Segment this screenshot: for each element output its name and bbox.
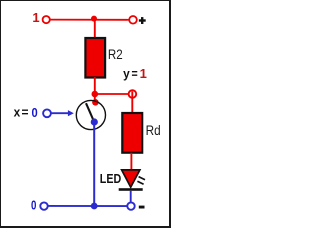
label - (139, 206, 145, 209)
junction node y (92, 91, 99, 98)
label R2 (108, 47, 123, 62)
label 0 (31, 198, 36, 213)
svg-text:Rd: Rd (146, 123, 161, 138)
node y terminal (129, 90, 137, 98)
wire LED cathode (130, 191, 132, 206)
svg-text:R2: R2 (108, 47, 123, 62)
svg-text:=: = (22, 105, 29, 120)
wire Rd top (131, 91, 133, 114)
svg-text:1: 1 (140, 66, 147, 81)
wire collector stub (94, 94, 96, 104)
wire top rail (46, 19, 133, 21)
wire R2 bottom (94, 77, 96, 94)
collector contact dot (92, 99, 99, 106)
switch lever (86, 103, 94, 121)
wire input x (51, 110, 74, 116)
label Rd (146, 123, 161, 138)
node - terminal (127, 202, 134, 209)
svg-text:0: 0 (31, 198, 36, 213)
wire LED anode (130, 153, 132, 171)
label x = 0 (14, 105, 38, 121)
svg-text:LED: LED (100, 171, 121, 186)
label 1 (32, 10, 39, 25)
wire R2 top (94, 20, 96, 39)
node 0 terminal (40, 202, 47, 209)
junction bottom (91, 203, 98, 210)
LED emission marks (137, 177, 145, 185)
wire node y horizontal (95, 93, 133, 95)
label LED (100, 171, 121, 186)
emitter contact dot (91, 118, 98, 125)
node + terminal (129, 16, 137, 24)
svg-text:y: y (123, 66, 130, 81)
resistor R2 (85, 38, 105, 78)
node x terminal (43, 109, 51, 117)
LED diode (119, 170, 143, 191)
label + (139, 17, 146, 24)
transistor switch Q1 body (76, 100, 105, 129)
label y = 1 (123, 66, 147, 81)
wire bottom rail (44, 205, 130, 207)
svg-text:=: = (132, 66, 139, 81)
resistor Rd (122, 113, 142, 153)
junction top (91, 16, 97, 22)
wire emitter (93, 123, 95, 207)
svg-text:1: 1 (32, 10, 39, 25)
svg-text:x: x (14, 105, 21, 120)
svg-text:0: 0 (32, 105, 38, 120)
node 1 terminal (43, 16, 50, 23)
